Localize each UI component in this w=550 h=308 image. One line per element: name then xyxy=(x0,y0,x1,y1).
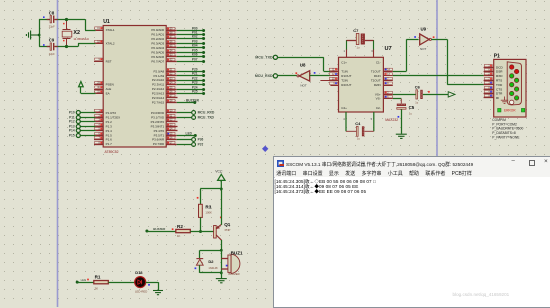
ground (LED) xyxy=(153,291,163,295)
svg-text:P_PARITY=NONE: P_PARITY=NONE xyxy=(492,135,520,139)
U1 pin name labels (left column) xyxy=(106,28,121,146)
U7 pin number 8 (R2IN) xyxy=(385,82,393,85)
svg-text:P2.7/A15: P2.7/A15 xyxy=(152,100,165,104)
P1 pin 6 (DSR) stub xyxy=(484,71,494,73)
svg-text:P3.1/TXD: P3.1/TXD xyxy=(151,115,165,119)
U1 pin number 15 xyxy=(167,132,175,135)
wire R2 to Q1 base xyxy=(190,231,214,233)
U1 pin stub PSEN xyxy=(94,84,103,86)
power terminal VCC at EA xyxy=(79,82,84,94)
U1 pin number 21 xyxy=(167,68,175,71)
svg-text:22pF: 22pF xyxy=(49,52,55,56)
wire gnd to C9 xyxy=(39,46,51,48)
U1 pin stub XTAL2 xyxy=(96,43,104,45)
U1 pin number 30 (ALE) xyxy=(95,86,103,89)
diode D2 1N4148 (pointing up) xyxy=(196,259,218,270)
red state dot after C6 xyxy=(428,91,430,93)
svg-text:P15: P15 xyxy=(69,134,75,138)
svg-text:P0.4/AD4: P0.4/AD4 xyxy=(151,46,164,50)
svg-text:BUZZER: BUZZER xyxy=(186,98,200,102)
U7 pin name labels xyxy=(341,61,381,111)
capacitor C5 (polarized, vertical) xyxy=(397,99,415,116)
svg-text:P12: P12 xyxy=(69,120,75,124)
svg-text:P3.4/T0: P3.4/T0 xyxy=(154,129,165,133)
svg-text:ERROR: ERROR xyxy=(504,109,516,113)
svg-text:R1IN: R1IN xyxy=(374,74,381,78)
U1 pin number 13 xyxy=(167,123,175,126)
U1 pin number 32 xyxy=(167,58,175,61)
svg-text:MCU_TXD: MCU_TXD xyxy=(198,116,215,120)
svg-text:P0.5/AD5: P0.5/AD5 xyxy=(151,50,164,54)
P1 pin 2 (RXD) stub xyxy=(484,75,494,77)
terminal received data text xyxy=(275,177,550,307)
junction X2 top xyxy=(65,18,68,21)
svg-text:P2.0/A8: P2.0/A8 xyxy=(154,69,165,73)
svg-text:P3.7/RD: P3.7/RD xyxy=(153,142,165,146)
red state dot X2 bottom pin xyxy=(63,40,65,42)
COMPIM property text xyxy=(492,118,523,139)
U7 pin stub T1OUT xyxy=(383,71,392,73)
red state dot BUZZER xyxy=(172,228,174,230)
svg-text:BUZZER: BUZZER xyxy=(229,272,240,276)
svg-text:P37: P37 xyxy=(198,143,204,147)
U7 pin number 9 (R2OUT) xyxy=(329,82,337,85)
U1 pin P1.6 (pin 7) xyxy=(94,139,103,141)
U1 pin P3.0 (pin 10) xyxy=(166,111,215,115)
svg-text:100K: 100K xyxy=(205,211,212,215)
COMPIM DB9 connector graphic xyxy=(507,62,521,105)
svg-text:C8: C8 xyxy=(49,10,55,15)
P1 pin 8 (CTS) stub xyxy=(484,89,494,91)
wire down to ground xyxy=(158,282,160,290)
svg-text:T1OUT: T1OUT xyxy=(371,69,381,73)
svg-text:P1.5: P1.5 xyxy=(106,133,113,137)
resistor R2 xyxy=(176,224,191,238)
U7 pin stub T1IN xyxy=(330,71,338,73)
COMPIM internal ground symbol xyxy=(501,97,508,104)
P1 pin 3 (TXD) stub xyxy=(484,84,494,86)
wire MCU_TXD into T1IN xyxy=(324,71,331,73)
U1 pin P0.5 (pin 34) wire to terminal P05 xyxy=(166,49,205,54)
P1 pin number 2 xyxy=(484,72,492,75)
svg-text:T2OUT: T2OUT xyxy=(371,79,381,83)
U1 pin number 7 xyxy=(95,136,103,139)
blue state dot near C8 xyxy=(43,16,45,18)
svg-text:C1-: C1- xyxy=(376,61,381,65)
junction collector node xyxy=(220,249,223,252)
junction buzzer gnd node xyxy=(220,272,223,275)
svg-text:PSEN: PSEN xyxy=(106,83,114,87)
svg-text:P1.6: P1.6 xyxy=(106,138,113,142)
svg-text:11.0592MHz: 11.0592MHz xyxy=(73,37,89,41)
svg-text:VS-: VS- xyxy=(376,97,381,101)
U1 pin number 5 xyxy=(95,127,103,130)
junction X2 bottom xyxy=(65,45,68,48)
svg-text:VCC: VCC xyxy=(215,170,223,174)
svg-text:XTAL1: XTAL1 xyxy=(106,28,115,32)
svg-text:P0.0/AD0: P0.0/AD0 xyxy=(151,28,164,32)
U1 pin number 2 xyxy=(95,114,103,117)
junction gnd/caps xyxy=(38,34,41,37)
blue state dot near C5 xyxy=(398,116,400,118)
U7 pin number 11 (T1IN) xyxy=(329,68,337,71)
wire gnd to C8 xyxy=(39,19,51,21)
U1 pin P2.3 (pin 24) xyxy=(166,81,205,86)
svg-text:LED: LED xyxy=(186,131,193,135)
svg-text:P2.5/A13: P2.5/A13 xyxy=(152,92,165,96)
U7 pin number 2 (VS+) xyxy=(385,91,393,94)
U7 pin number 10 (T2IN) xyxy=(329,77,337,80)
svg-text:P36: P36 xyxy=(198,138,204,142)
U1 pin number 10 xyxy=(167,109,175,112)
U7 pin number 12 (R1OUT) xyxy=(329,73,337,76)
U1 pin P2.4 (pin 25) xyxy=(166,86,205,91)
svg-text:R2IN: R2IN xyxy=(374,83,381,87)
wire C6 to terminal xyxy=(423,94,448,96)
red state dot X2 top pin xyxy=(63,23,65,25)
svg-text:P0.1/AD1: P0.1/AD1 xyxy=(151,33,164,37)
svg-text:C2+: C2+ xyxy=(341,106,347,110)
svg-text:C5: C5 xyxy=(409,105,415,110)
red state dot U9 output xyxy=(433,36,435,38)
P1 pin number 7 xyxy=(484,77,492,80)
P1 pin number 1 xyxy=(484,64,492,67)
U1 pin number 33 xyxy=(167,53,175,56)
P1 pin number 3 xyxy=(484,81,492,84)
svg-text:U1: U1 xyxy=(103,19,110,25)
U1 pin P0.1 (pin 38) wire to terminal P01 xyxy=(166,31,205,36)
U1 pin number 16 xyxy=(167,136,175,139)
wire D2 anode down xyxy=(199,265,201,273)
P1 pin number 4 xyxy=(484,90,492,93)
svg-text:MAX232: MAX232 xyxy=(385,118,398,122)
svg-text:NOT: NOT xyxy=(420,47,427,51)
capacitor C4 xyxy=(343,112,374,140)
svg-text:CTS: CTS xyxy=(496,87,502,91)
U7 pin stub R1IN xyxy=(383,75,392,77)
wire MCU_TXD horizontal xyxy=(277,57,324,59)
wire C5 to ground xyxy=(401,109,403,133)
svg-text:RTS: RTS xyxy=(496,79,502,83)
svg-text:C4: C4 xyxy=(355,121,361,126)
svg-text:DTR: DTR xyxy=(496,92,503,96)
red state dot LED net xyxy=(87,279,89,281)
capacitor C8 xyxy=(47,10,58,28)
svg-text:PNP: PNP xyxy=(225,228,231,232)
U1 pin P1.1 (pin 2) xyxy=(69,116,103,120)
U7 pin number 7 (T2OUT) xyxy=(385,77,393,80)
svg-text:TXD: TXD xyxy=(496,83,503,87)
svg-text:ALE: ALE xyxy=(106,87,112,91)
U1 pin P2.5 (pin 26) xyxy=(166,90,205,95)
terminal MCU_RXD xyxy=(255,74,278,78)
wire to COMPIM TXD xyxy=(447,84,483,86)
svg-text:U7: U7 xyxy=(385,46,392,52)
svg-text:P06: P06 xyxy=(192,53,198,57)
wire C8 to X2 node xyxy=(55,19,66,21)
U1 pin stub ALE xyxy=(94,89,103,91)
U1 pin number 14 xyxy=(167,127,175,130)
svg-text:P1.4: P1.4 xyxy=(106,129,113,133)
wire down to D2 cathode xyxy=(199,250,201,258)
blue state dot U8 input xyxy=(314,72,316,74)
blue state dot D2 xyxy=(195,267,197,269)
U1 pin number 8 xyxy=(95,141,103,144)
svg-text:Q1: Q1 xyxy=(224,222,231,227)
microcontroller U1 AT89C52 body xyxy=(103,19,166,154)
U1 pin name labels (right column) xyxy=(151,28,165,146)
svg-text:P2.3/A11: P2.3/A11 xyxy=(152,83,164,87)
svg-text:P3.6/WR: P3.6/WR xyxy=(152,138,165,142)
svg-text:P0.3/AD3: P0.3/AD3 xyxy=(151,41,164,45)
svg-text:AT89C52: AT89C52 xyxy=(105,150,119,154)
red state dot U8 output xyxy=(295,72,297,74)
sheet boundary line right xyxy=(436,0,438,156)
svg-text:R3: R3 xyxy=(205,205,211,210)
terminal LED net xyxy=(76,278,86,284)
svg-text:P02: P02 xyxy=(192,35,198,39)
resistor R1 xyxy=(94,274,109,290)
U1 pin number 34 xyxy=(167,49,175,52)
svg-text:MCU_RXD: MCU_RXD xyxy=(198,111,215,115)
U1 pin number 26 xyxy=(167,90,175,93)
wire X2 bottom toward XTAL2 xyxy=(67,46,79,48)
svg-text:U8: U8 xyxy=(300,62,306,67)
svg-text:P14: P14 xyxy=(69,129,75,133)
svg-text:U9: U9 xyxy=(421,27,427,32)
U1 pin number 6 xyxy=(95,132,103,135)
svg-text:P04: P04 xyxy=(192,44,198,48)
wire D2 to gnd node xyxy=(200,272,222,274)
svg-text:1K: 1K xyxy=(177,234,181,238)
svg-text:P3.0/RXD: P3.0/RXD xyxy=(151,111,165,115)
connector P1 COMPIM body xyxy=(494,54,526,117)
blue state dot near C9 xyxy=(43,44,45,46)
U1 pin number 22 xyxy=(167,72,175,75)
svg-text:R2: R2 xyxy=(177,224,183,229)
U1 pin number 4 xyxy=(95,123,103,126)
U1 pin number 27 xyxy=(167,94,175,97)
U1 pin P0.3 (pin 36) wire to terminal P03 xyxy=(166,40,205,45)
U1 pin P0.6 (pin 33) wire to terminal P06 xyxy=(166,53,205,58)
svg-text:MCU_TXD: MCU_TXD xyxy=(255,56,273,60)
wire D18 to ground xyxy=(146,282,158,284)
U1 pin P0.4 (pin 35) wire to terminal P04 xyxy=(166,44,205,49)
svg-text:T2IN: T2IN xyxy=(341,79,348,83)
U1 pin P1.2 (pin 3) xyxy=(69,120,103,124)
power terminal VCC (buzzer circuit) xyxy=(215,170,225,189)
U1 pin number 28 xyxy=(167,99,175,102)
U1 pin P1.3 (pin 4) xyxy=(69,125,103,129)
U1 pin P1.0 (pin 1) xyxy=(69,111,103,115)
svg-text:P2.1/A9: P2.1/A9 xyxy=(154,74,165,78)
U1 pin P2.0 (pin 21) xyxy=(166,68,205,73)
ground (C5) xyxy=(396,134,407,138)
U1 pin number 12 xyxy=(167,118,175,121)
svg-text:P1.0/T2: P1.0/T2 xyxy=(106,111,117,115)
SSCOM serial terminal window xyxy=(273,156,550,308)
U7 pin number 13 (R1IN) xyxy=(385,73,393,76)
wire jog up to XTAL2 xyxy=(78,43,80,46)
svg-text:EA: EA xyxy=(106,92,110,96)
svg-text:R1OUT: R1OUT xyxy=(341,74,351,78)
U1 pin stub EA xyxy=(96,93,104,95)
U7 pin stub VS+ xyxy=(383,94,392,96)
wire C9 to X2 node xyxy=(55,46,66,48)
svg-text:R1: R1 xyxy=(95,274,101,279)
wire MCU_TXD down xyxy=(323,57,325,71)
P1 pin 4 (DTR) stub xyxy=(484,93,494,95)
red state dot R3 top xyxy=(197,197,199,199)
P1 pin 1 (DCD) stub xyxy=(484,67,494,69)
wire collector to D2 branch xyxy=(200,250,222,252)
svg-text:C7: C7 xyxy=(353,28,359,33)
U1 pin P3.5 (pin 15) xyxy=(166,131,197,137)
U1 pin P3.4 (pin 14) xyxy=(166,130,177,132)
U1 pin number 36 xyxy=(167,40,175,43)
svg-text:D2: D2 xyxy=(208,259,214,264)
svg-text:RXD: RXD xyxy=(496,74,503,78)
U7 pin stub T2OUT xyxy=(383,80,392,82)
wire into XTAL2 xyxy=(78,43,96,45)
svg-text:R2OUT: R2OUT xyxy=(341,83,351,87)
wire U8 input from R1OUT xyxy=(310,75,331,77)
wire down to XTAL1 xyxy=(85,19,87,30)
svg-text:P21: P21 xyxy=(192,72,198,76)
wire X2 top to XTAL1 corner xyxy=(67,19,86,21)
wire LED to R1 xyxy=(77,282,94,284)
default terminal (arrow) on C6 net xyxy=(448,92,455,97)
svg-text:BUZ1: BUZ1 xyxy=(231,250,243,255)
svg-text:NOT: NOT xyxy=(300,84,307,88)
inverter U9 (NOT, pointing right) xyxy=(420,27,432,51)
U1 pin number 18 (XTAL2) xyxy=(95,40,103,43)
U1 pin P0.2 (pin 37) wire to terminal P02 xyxy=(166,35,205,40)
P1 pin 9 (RI) stub xyxy=(484,97,494,99)
U1 pin number 39 xyxy=(167,27,175,30)
wire crystal-gnd vertical xyxy=(39,19,41,46)
U1 pin number 17 xyxy=(167,141,175,144)
wire U9 output down xyxy=(447,39,449,84)
blue state dot D18 xyxy=(148,284,150,286)
wire down to R3 xyxy=(200,189,202,204)
terminal BUZZER net xyxy=(145,227,166,233)
svg-text:P23: P23 xyxy=(192,81,198,85)
wire into XTAL1 xyxy=(85,30,96,32)
svg-text:P3.5/T1: P3.5/T1 xyxy=(154,133,165,137)
window title bar xyxy=(274,157,550,168)
svg-text:P1.7: P1.7 xyxy=(106,142,113,146)
ground (buzzer) xyxy=(216,279,227,283)
P1 pin number 8 xyxy=(484,86,492,89)
U7 pin stub VS- xyxy=(383,98,392,100)
wire EA to VCC xyxy=(81,93,96,95)
wire R1 to D18 xyxy=(108,282,134,284)
svg-text:P07: P07 xyxy=(192,58,198,62)
U1 pin P1.5 (pin 6) xyxy=(69,134,103,138)
wire VCC to Q1 emitter xyxy=(221,189,223,225)
U1 pin P3.6 (pin 16) xyxy=(166,138,203,142)
U1 pin number 38 xyxy=(167,31,175,34)
svg-text:P2.4/A12: P2.4/A12 xyxy=(152,87,165,91)
red state dot Q1 emitter xyxy=(220,217,222,219)
wire R1IN to COMPIM RXD (long) xyxy=(393,75,484,77)
svg-text:P3.2/INT0: P3.2/INT0 xyxy=(151,120,165,124)
wire VS+ to C6 xyxy=(393,94,416,96)
svg-text:P1.2: P1.2 xyxy=(106,120,113,124)
U1 pin number 37 xyxy=(167,35,175,38)
U1 pin stub RST (unconnected) xyxy=(94,61,103,63)
wire MCU_RXD to U8 output xyxy=(277,75,297,77)
svg-text:P1.1/T2EX: P1.1/T2EX xyxy=(106,115,121,119)
svg-text:DSR: DSR xyxy=(496,70,503,74)
U1 pin number 19 (XTAL1) xyxy=(95,27,103,30)
svg-text:22pF: 22pF xyxy=(49,25,55,29)
svg-text:XTAL2: XTAL2 xyxy=(106,42,115,46)
U1 pin P2.1 (pin 22) xyxy=(166,72,205,77)
U1 pin P1.4 (pin 5) xyxy=(69,129,103,133)
U1 pin P0.7 (pin 32) wire to terminal P07 xyxy=(166,58,205,63)
svg-text:LED-RED: LED-RED xyxy=(135,289,147,293)
svg-text:X2: X2 xyxy=(73,30,80,36)
svg-text:1N4148: 1N4148 xyxy=(208,266,218,270)
terminal MCU_TXD xyxy=(255,55,277,59)
svg-text:LED: LED xyxy=(81,278,86,282)
watermark xyxy=(453,292,510,297)
junction marker blue diamond (origin marker) xyxy=(262,146,268,152)
svg-text:C6: C6 xyxy=(415,84,421,89)
COMPIM pin labels xyxy=(496,65,503,100)
blue state dot U9 input xyxy=(414,36,416,38)
U1 pin number 35 xyxy=(167,44,175,47)
svg-text:P2.6/A14: P2.6/A14 xyxy=(152,96,165,100)
window buttons minimize/maximize/close xyxy=(512,158,515,164)
wire into U9 xyxy=(406,39,418,41)
capacitor C9 xyxy=(47,38,58,56)
resistor R3 xyxy=(199,204,213,217)
U1 pin number 29 (PSEN) xyxy=(95,81,103,84)
sheet boundary line left xyxy=(57,0,59,307)
U7 pin number 14 (T1OUT) xyxy=(385,68,393,71)
COMPIM ERROR indicator xyxy=(498,108,525,112)
svg-text:C1+: C1+ xyxy=(341,61,347,65)
P1 pin 7 (RTS) stub xyxy=(484,80,494,82)
wire Q1 collector down xyxy=(221,240,223,250)
svg-text:D18: D18 xyxy=(135,270,143,275)
U7 pin stub T2IN (unconnected) xyxy=(320,80,338,82)
U1 pin P0.0 (pin 39) wire to terminal P00 xyxy=(166,27,205,32)
U1 pin stub XTAL1 xyxy=(96,30,104,32)
wire R3 to base node xyxy=(200,217,202,231)
svg-text:P0.2/AD2: P0.2/AD2 xyxy=(151,37,164,41)
U1 pin P2.7 (pin 28) xyxy=(166,98,199,104)
U1 pin number 25 xyxy=(167,86,175,89)
svg-text:T1IN: T1IN xyxy=(341,69,348,73)
P1 pin number 9 xyxy=(484,94,492,97)
inverter U8 (NOT, pointing left) xyxy=(297,62,310,87)
U1 pin P2.6 (pin 27) xyxy=(166,97,177,99)
svg-text:C2-: C2- xyxy=(376,106,381,110)
svg-text:P0.7/AD7: P0.7/AD7 xyxy=(151,59,164,63)
U1 pin P2.2 (pin 23) xyxy=(166,77,205,82)
U1 pin number 24 xyxy=(167,81,175,84)
U7 pin stub R1OUT xyxy=(330,75,338,77)
wire up to U9 input xyxy=(406,39,408,71)
svg-text:BUZZER: BUZZER xyxy=(153,227,166,231)
wire T1OUT to U9 corner xyxy=(393,71,407,73)
svg-text:P1.3: P1.3 xyxy=(106,124,113,128)
U1 pin number 3 xyxy=(95,118,103,121)
